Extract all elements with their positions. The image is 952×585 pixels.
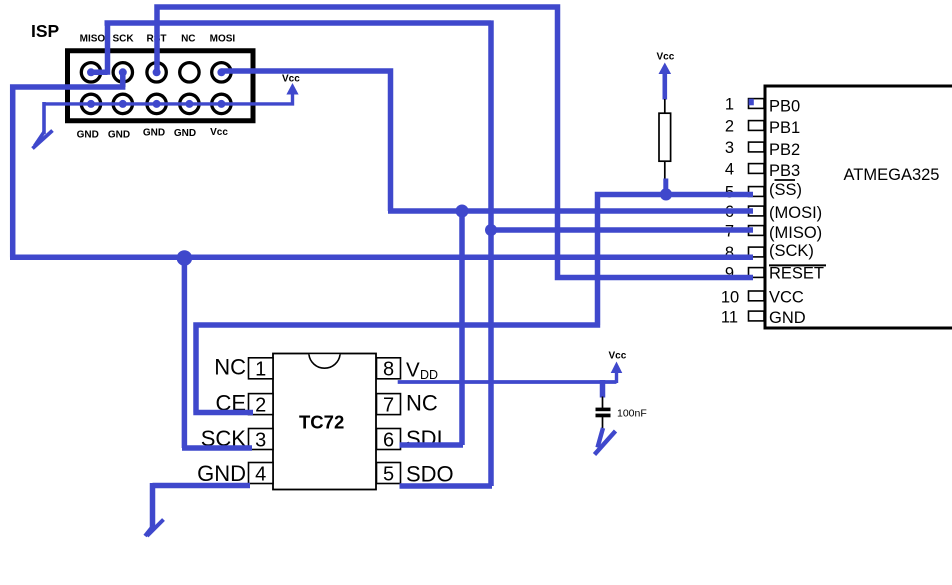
ISP pin circle MISO — [81, 63, 100, 82]
svg-text:4: 4 — [725, 160, 734, 178]
wire ISP GND drop — [42, 102, 46, 134]
TC72 pin box 2 — [249, 394, 274, 415]
svg-text:3: 3 — [725, 139, 734, 157]
chip U1 ATMEGA325 body — [765, 86, 952, 328]
ISP pin circle GND2 — [113, 94, 132, 113]
TC72 pin box 1 — [249, 358, 274, 379]
ATMEGA pin box 8 — [749, 247, 765, 257]
svg-text:ISP: ISP — [31, 21, 60, 41]
ground symbol at TC72 (bend) — [145, 526, 153, 536]
ISP pin dot GND3 — [153, 100, 161, 108]
ISP pin dot RST — [153, 68, 161, 76]
svg-text:Vcc: Vcc — [210, 127, 228, 138]
svg-text:GND: GND — [197, 461, 246, 486]
capacitor C1 bottom lead — [602, 417, 604, 429]
svg-text:MISO: MISO — [80, 34, 106, 45]
ground symbol at TC72 (slash) — [147, 520, 164, 537]
wire net MOSI: ISP MOSI right down over to ATMEGA pin 6 — [221, 68, 753, 211]
svg-text:V: V — [406, 359, 420, 382]
ATMEGA pin box 2 — [749, 121, 765, 131]
TC72 pin box 3 — [249, 429, 274, 450]
svg-text:(SCK): (SCK) — [769, 242, 814, 260]
chip U2 TC72 body — [273, 354, 376, 490]
svg-text:1: 1 — [725, 95, 734, 113]
svg-text:Vcc: Vcc — [657, 52, 675, 63]
ATMEGA pin 1 blue stub — [749, 99, 754, 106]
wire net SS: ATMEGA pin 5 left down left down to TC72 CE — [193, 192, 753, 413]
svg-text:GND: GND — [769, 309, 806, 327]
ISP pin circle MOSI — [212, 63, 231, 82]
svg-text:8: 8 — [383, 359, 394, 381]
svg-text:6: 6 — [383, 429, 394, 451]
TC72 pin box 6 — [377, 429, 401, 450]
TC72 notch — [309, 354, 340, 368]
ATMEGA pin box 1 — [749, 99, 765, 109]
ATMEGA pin box 4 — [749, 164, 765, 174]
ISP pin dot Vcc — [217, 100, 225, 108]
svg-text:11: 11 — [721, 308, 738, 326]
svg-text:DD: DD — [420, 368, 438, 382]
wire ISP Vcc bus bottom row — [44, 93, 293, 106]
svg-text:PB1: PB1 — [769, 119, 800, 137]
resistor R1 bottom lead — [664, 161, 666, 180]
svg-text:(MOSI): (MOSI) — [769, 204, 822, 222]
svg-text:MOSI: MOSI — [210, 34, 236, 45]
Vcc arrow shaft at TC72 — [615, 368, 618, 383]
junction node MOSI to SDI — [456, 205, 469, 218]
svg-text:4: 4 — [255, 463, 266, 485]
ATMEGA RESET overline — [769, 264, 826, 266]
svg-text:ATMEGA325: ATMEGA325 — [844, 166, 940, 184]
svg-text:5: 5 — [383, 463, 394, 485]
ISP pin circle NC — [180, 63, 199, 82]
svg-text:(MISO): (MISO) — [769, 224, 822, 242]
wire SCK branch to TC72 pin 3 — [182, 255, 252, 448]
ISP pin circle GND1 — [81, 94, 100, 113]
ISP pin dot MISO — [87, 68, 95, 76]
ATMEGA pin box 10 — [749, 291, 765, 301]
svg-text:2: 2 — [725, 117, 734, 135]
Vcc arrowhead at ISP — [286, 83, 298, 95]
ATMEGA pin box 11 — [749, 311, 765, 321]
svg-text:GND: GND — [77, 130, 99, 141]
svg-text:GND: GND — [143, 128, 165, 139]
svg-text:SDO: SDO — [406, 462, 454, 487]
ISP pin circle GND3 — [147, 94, 166, 113]
svg-text:1: 1 — [255, 359, 266, 381]
resistor R1 body — [659, 113, 671, 161]
svg-text:GND: GND — [108, 130, 130, 141]
svg-text:NC: NC — [406, 391, 438, 416]
ATMEGA pin box 6 — [749, 206, 765, 216]
ISP pin circle GND4 — [180, 94, 199, 113]
wire TC72 GND left and down — [153, 483, 251, 528]
svg-text:PB0: PB0 — [769, 97, 800, 115]
svg-text:RESET: RESET — [769, 265, 824, 283]
ISP pin circle SCK — [113, 63, 132, 82]
svg-text:10: 10 — [721, 288, 739, 306]
ground symbol at ISP (slash) — [33, 131, 53, 149]
TC72 pin box 8 — [377, 358, 401, 379]
wire net MISO: ISP MISO up over down to junction and TC72 SDO — [91, 20, 492, 486]
wire net SCK: ISP SCK down left down over to ATMEGA pin 8 — [10, 72, 753, 257]
ISP pin circle RST — [147, 63, 166, 82]
Vcc arrowhead at TC72 — [611, 362, 623, 374]
wire MISO branch to ATMEGA pin 7 — [491, 227, 753, 233]
ATMEGA pin box 9 — [749, 268, 765, 278]
ground symbol at ISP (bend) — [35, 132, 45, 146]
ATMEGA pin box 7 — [749, 226, 765, 236]
svg-text:PB2: PB2 — [769, 141, 800, 159]
ISP pin circle Vcc — [212, 94, 231, 113]
svg-text:Vcc: Vcc — [282, 74, 300, 85]
svg-text:GND: GND — [174, 128, 196, 139]
TC72 pin box 7 — [377, 394, 401, 415]
ATMEGA pin box 5 — [749, 187, 765, 197]
junction node resistor to SS net — [660, 188, 672, 200]
resistor R1 Vcc arrow shaft — [662, 70, 667, 100]
ISP pin dot GND4 — [185, 100, 193, 108]
svg-text:7: 7 — [383, 394, 394, 416]
svg-text:PB3: PB3 — [769, 162, 800, 180]
svg-text:Vcc: Vcc — [609, 351, 627, 362]
ground symbol at capacitor (slash) — [595, 431, 616, 455]
capacitor C1 plate top — [596, 408, 611, 412]
resistor R1 Vcc arrowhead — [659, 63, 672, 75]
svg-text:100nF: 100nF — [617, 408, 647, 420]
ATMEGA SS overline — [775, 179, 796, 181]
capacitor C1 top lead — [602, 397, 604, 409]
wire net VDD: TC72 pin 8 to Vcc and decoupling cap — [398, 380, 617, 384]
ISP pin dot MOSI — [217, 68, 225, 76]
wire capacitor stub — [600, 380, 606, 398]
svg-text:VCC: VCC — [769, 288, 804, 306]
ISP header J1 body — [68, 51, 254, 121]
junction node MISO to SDO — [485, 224, 497, 236]
ISP pin dot SCK — [119, 68, 127, 76]
svg-text:3: 3 — [255, 429, 266, 451]
wire MOSI branch to TC72 pin 6 SDI — [400, 211, 464, 445]
svg-text:SCK: SCK — [112, 34, 134, 45]
capacitor C1 plate bottom — [596, 414, 611, 418]
TC72 pin box 5 — [377, 463, 401, 484]
ATMEGA pin box 3 — [749, 142, 765, 152]
ISP pin dot GND1 — [87, 100, 95, 108]
svg-text:NC: NC — [214, 355, 246, 380]
wire net RESET: ISP RST up over to ATMEGA pin 9 — [157, 7, 753, 278]
svg-text:TC72: TC72 — [299, 411, 344, 432]
junction node SCK to TC72 — [177, 250, 193, 266]
ground symbol at capacitor (bend) — [598, 428, 604, 448]
svg-text:NC: NC — [181, 34, 195, 45]
svg-text:(SS): (SS) — [769, 181, 802, 199]
svg-text:2: 2 — [255, 394, 266, 416]
ISP pin dot GND2 — [119, 100, 127, 108]
TC72 pin box 4 — [249, 463, 274, 484]
resistor R1 top lead — [664, 99, 666, 114]
resistor R1 bottom blue stub — [663, 179, 668, 195]
